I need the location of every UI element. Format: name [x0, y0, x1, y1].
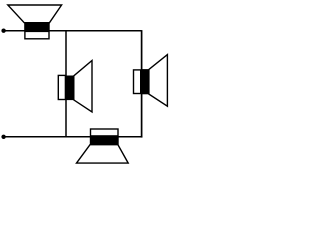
wire middle branch	[65, 31, 67, 137]
wire bottom rail	[2, 136, 142, 138]
wire right rail	[141, 30, 143, 138]
loudspeaker LS2 (middle branch, cone right)	[58, 61, 92, 113]
loudspeaker LS1 (top, cone up)	[8, 5, 62, 39]
terminal dot T1	[1, 29, 5, 33]
loudspeaker LS4 (bottom rail, cone down)	[77, 129, 129, 163]
loudspeaker LS3 (right rail, cone right)	[134, 55, 168, 107]
wire top rail	[2, 30, 142, 32]
terminal dot T2	[1, 135, 5, 139]
